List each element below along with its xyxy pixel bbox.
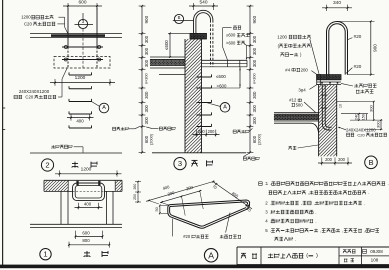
svg-text:340: 340: [333, 0, 341, 6]
svg-text:,: ,: [301, 201, 302, 206]
svg-text:50: 50: [155, 207, 159, 211]
svg-text:.: .: [315, 210, 316, 215]
svg-text:n×300: n×300: [252, 73, 256, 84]
svg-text:300: 300: [252, 59, 257, 67]
svg-text:(: (: [306, 253, 308, 259]
svg-text:400: 400: [84, 202, 92, 207]
svg-text:260: 260: [133, 184, 137, 190]
svg-text:#20: #20: [354, 34, 362, 39]
svg-text:900: 900: [144, 15, 149, 23]
svg-text:1200: 1200: [81, 166, 92, 172]
svg-text:3φ4: 3φ4: [298, 88, 306, 93]
svg-text:#20: #20: [183, 234, 191, 239]
svg-text:C20: C20: [25, 95, 33, 100]
svg-text:,: ,: [308, 190, 309, 195]
svg-text:600: 600: [82, 231, 90, 236]
svg-text:300: 300: [252, 91, 257, 99]
svg-text:900: 900: [372, 44, 377, 52]
svg-text:300: 300: [368, 104, 373, 111]
svg-text:108: 108: [371, 258, 379, 263]
svg-text:3: 3: [178, 159, 182, 168]
svg-text:500: 500: [296, 102, 304, 107]
svg-text:150: 150: [362, 114, 366, 120]
svg-text:600: 600: [144, 135, 149, 143]
svg-text:1200: 1200: [277, 35, 287, 40]
svg-text:(2000): (2000): [257, 133, 261, 145]
svg-text:#4: #4: [285, 67, 290, 72]
svg-text:≤600: ≤600: [226, 33, 236, 38]
svg-text:B: B: [368, 158, 373, 167]
svg-text:,: ,: [342, 228, 343, 233]
svg-text:300: 300: [144, 116, 149, 124]
svg-text:300: 300: [144, 35, 149, 43]
svg-text:1200: 1200: [75, 75, 86, 81]
svg-text:n×300: n×300: [144, 73, 148, 84]
svg-text:200: 200: [325, 157, 333, 162]
svg-text:.: .: [270, 181, 271, 186]
svg-text:A: A: [223, 104, 227, 110]
svg-text:#20: #20: [354, 64, 362, 69]
svg-text:B: B: [178, 15, 181, 20]
svg-text:300: 300: [252, 116, 257, 124]
svg-text:300: 300: [252, 104, 257, 112]
svg-text:.: .: [364, 201, 365, 206]
svg-text:.: .: [368, 190, 369, 195]
svg-text:600: 600: [252, 135, 257, 143]
svg-text:,: ,: [364, 228, 365, 233]
svg-text:(2000): (2000): [149, 133, 153, 145]
svg-text:200: 200: [301, 67, 309, 72]
svg-text:300: 300: [144, 47, 149, 55]
svg-text:>600: >600: [226, 40, 236, 45]
svg-text:.: .: [270, 219, 271, 224]
svg-text:2: 2: [45, 161, 49, 170]
svg-text:C20: C20: [357, 132, 365, 137]
svg-text:300: 300: [252, 47, 257, 55]
svg-text:≤600: ≤600: [216, 74, 226, 79]
svg-text:200: 200: [208, 129, 216, 134]
svg-text:C20: C20: [24, 21, 33, 26]
svg-text:300: 300: [376, 120, 381, 127]
svg-text:.: .: [270, 201, 271, 206]
svg-text:10: 10: [339, 104, 343, 108]
svg-text:,: ,: [314, 201, 315, 206]
svg-text:400: 400: [76, 118, 84, 123]
svg-text:≤600: ≤600: [164, 40, 169, 50]
svg-text:300: 300: [144, 91, 149, 99]
svg-text:600: 600: [78, 0, 86, 5]
svg-text:540: 540: [199, 0, 207, 5]
svg-text:.: .: [270, 210, 271, 215]
svg-text:1200: 1200: [21, 15, 31, 20]
svg-text:A: A: [208, 250, 214, 260]
svg-text:.: .: [315, 219, 316, 224]
svg-text:900: 900: [252, 15, 257, 23]
svg-text:240: 240: [354, 113, 359, 120]
svg-text:300: 300: [252, 35, 257, 43]
svg-text:300: 300: [144, 59, 149, 67]
svg-text:200: 200: [198, 129, 206, 134]
svg-text:): ): [316, 253, 318, 259]
svg-text:300: 300: [144, 104, 149, 112]
svg-text:250: 250: [133, 194, 137, 200]
svg-text:.: .: [270, 228, 271, 233]
svg-text:09J08: 09J08: [370, 249, 383, 254]
svg-text:1: 1: [43, 250, 47, 259]
svg-text:A: A: [102, 105, 106, 111]
svg-text:,: ,: [320, 228, 321, 233]
svg-text:200: 200: [338, 157, 346, 162]
svg-text:.: .: [295, 237, 296, 242]
svg-text:240X240X1200: 240X240X1200: [19, 89, 50, 94]
svg-text:800: 800: [82, 238, 90, 243]
